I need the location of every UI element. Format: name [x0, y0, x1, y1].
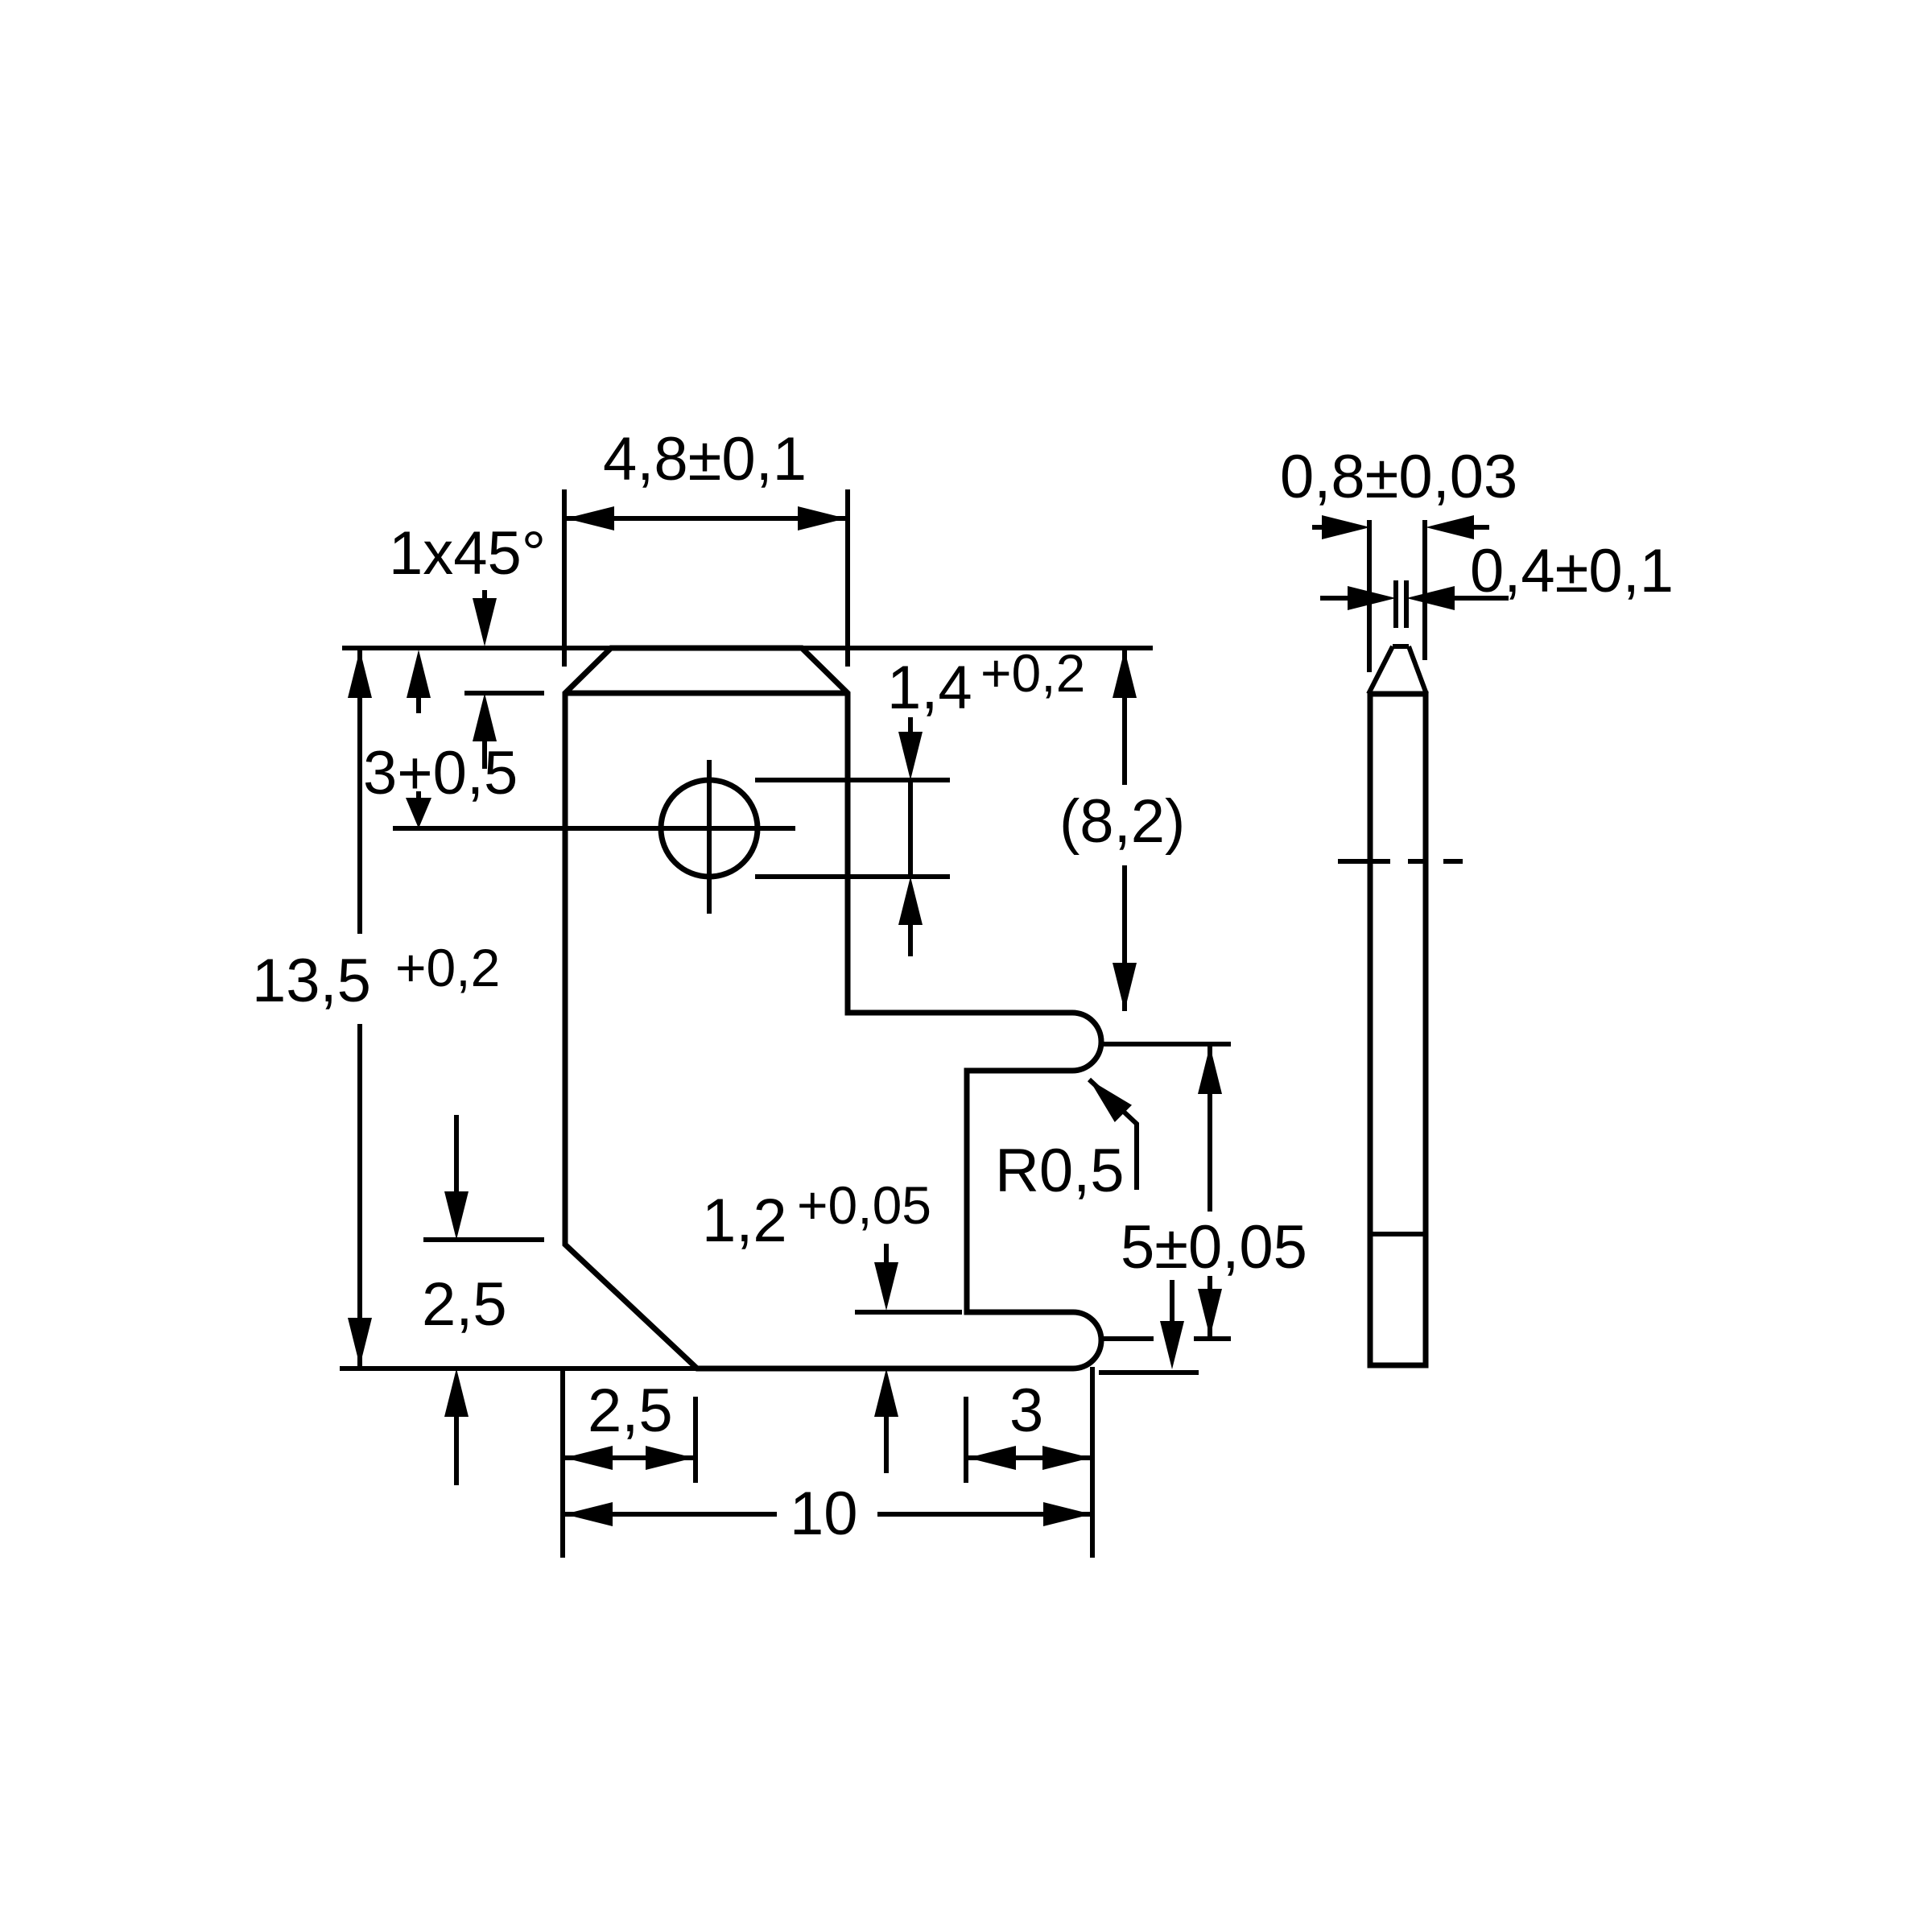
dim 1x45°: value label	[389, 519, 546, 588]
dim 0,8±0,03: arrows	[1312, 515, 1489, 539]
svg-text:0,4±0,1: 0,4±0,1	[1470, 537, 1674, 605]
dim (8,2): dimension line with arrows	[1113, 650, 1137, 1011]
hole horizontal centerline / 3+0,5 extension	[393, 826, 795, 831]
side view: tip chamfer triangle	[1368, 646, 1426, 694]
svg-text:3+0,5: 3+0,5	[363, 739, 518, 807]
side view: centerline	[1338, 859, 1463, 864]
dim 13,5+0,2: value label	[252, 938, 500, 1015]
dim 1,2+0,05: value label	[702, 1175, 931, 1255]
side view: solder leg section line	[1370, 1232, 1426, 1236]
dim 1,2+0,05: upper arrow	[874, 1244, 898, 1311]
svg-text:1x45°: 1x45°	[389, 519, 546, 588]
dim 2,5 (left): lower arrow	[444, 1368, 469, 1485]
dim 4,8±0,1: dimension line with arrows	[566, 506, 846, 530]
hole	[661, 780, 758, 877]
dim 1,4+0,2: arrows	[898, 717, 923, 956]
extension line: top reference (tab top edge extended)	[342, 646, 1153, 650]
dim 2,5 (left): upper arrow	[444, 1115, 469, 1240]
dim 5±0,05: dimension line with arrows	[1198, 1046, 1222, 1337]
dim 3+0,5: lower arrow	[406, 791, 431, 828]
part outline: front view of solder tab	[565, 648, 1101, 1368]
dim 13,5+0,2: dimension line with arrows	[348, 650, 372, 1366]
dim 3+0,5: upper arrow	[407, 650, 431, 713]
dim 5±0,05: upper extension from prong tip	[1102, 1042, 1231, 1046]
dim 0,8±0,03: extension lines	[1369, 520, 1425, 672]
svg-text:1,2: 1,2	[702, 1187, 787, 1255]
extension line: slot left wall	[964, 1397, 968, 1483]
svg-text:R0,5: R0,5	[995, 1137, 1125, 1205]
dim 1,2+0,05: slot bottom extension line	[855, 1310, 962, 1315]
arrow onto bottom edge extension	[1160, 1280, 1184, 1369]
side view: body rectangle	[1370, 694, 1426, 1365]
dim 1x45°: lower arrow	[473, 693, 497, 769]
svg-text:2,5: 2,5	[588, 1377, 673, 1445]
extension line: part left edge down	[560, 1368, 565, 1558]
dim 3 (bottom): dimension line with arrows	[968, 1446, 1091, 1470]
dim 3 (bottom): value label	[1009, 1377, 1043, 1445]
svg-text:1,4: 1,4	[887, 654, 972, 722]
svg-text:3: 3	[1009, 1377, 1043, 1445]
dim 3+0,5: value label	[363, 739, 518, 807]
leader R0,5: arrow and polyline	[1089, 1080, 1137, 1190]
dim 1x45°: chamfer line extension bar	[464, 691, 544, 696]
dim 0,8±0,03: value label	[1280, 443, 1517, 511]
bottom reference line (13,5 lower reference)	[340, 1366, 697, 1371]
dim 1x45°: upper arrow	[473, 590, 497, 646]
dim 2,5 (left): reference tick	[423, 1237, 544, 1242]
dim 5±0,05: lower extension from prong tip	[1102, 1336, 1231, 1341]
dim 10: value label	[790, 1480, 858, 1548]
svg-text:4,8±0,1: 4,8±0,1	[603, 425, 807, 493]
svg-text:0,8±0,03: 0,8±0,03	[1280, 443, 1517, 511]
extension line: chamfer corner	[693, 1397, 698, 1483]
dim 10: dimension line with arrows	[564, 1502, 1092, 1526]
svg-text:+0,2: +0,2	[395, 938, 500, 997]
leader R0,5: value label	[995, 1137, 1125, 1205]
dim 4,8±0,1: value label	[603, 425, 807, 493]
svg-text:+0,2: +0,2	[980, 643, 1085, 703]
svg-text:13,5: 13,5	[252, 947, 371, 1015]
hole vertical centerline	[707, 760, 712, 914]
dim 0,4±0,1: arrows	[1320, 586, 1509, 610]
dim 5±0,05: value label	[1121, 1213, 1307, 1282]
svg-text:5±0,05: 5±0,05	[1121, 1213, 1307, 1282]
dim 2,5 (left): value label	[422, 1270, 507, 1339]
dim (8,2): value label	[1059, 787, 1185, 856]
dim 2,5 (bottom): dimension line with arrows	[564, 1446, 694, 1470]
dim 2,5 (bottom): value label	[588, 1377, 673, 1445]
bottom edge right extension line	[1099, 1370, 1199, 1375]
svg-text:(8,2): (8,2)	[1059, 787, 1185, 856]
svg-text:2,5: 2,5	[422, 1270, 507, 1339]
side view: tip neck lines (0,4 thickness)	[1396, 580, 1406, 628]
svg-text:10: 10	[790, 1480, 858, 1548]
chamfer line 1x45 across tab top	[565, 691, 848, 696]
dim 4,8±0,1: extension lines	[564, 489, 848, 667]
svg-text:+0,05: +0,05	[797, 1175, 931, 1235]
dim 1,4+0,2: extension lines from hole tangents	[755, 780, 950, 877]
dim 1,4+0,2: value label	[887, 643, 1085, 722]
dim 0,4±0,1: value label	[1470, 537, 1674, 605]
extension line: prong tip right	[1090, 1367, 1095, 1558]
dim 1,2+0,05: lower arrow	[874, 1368, 898, 1473]
